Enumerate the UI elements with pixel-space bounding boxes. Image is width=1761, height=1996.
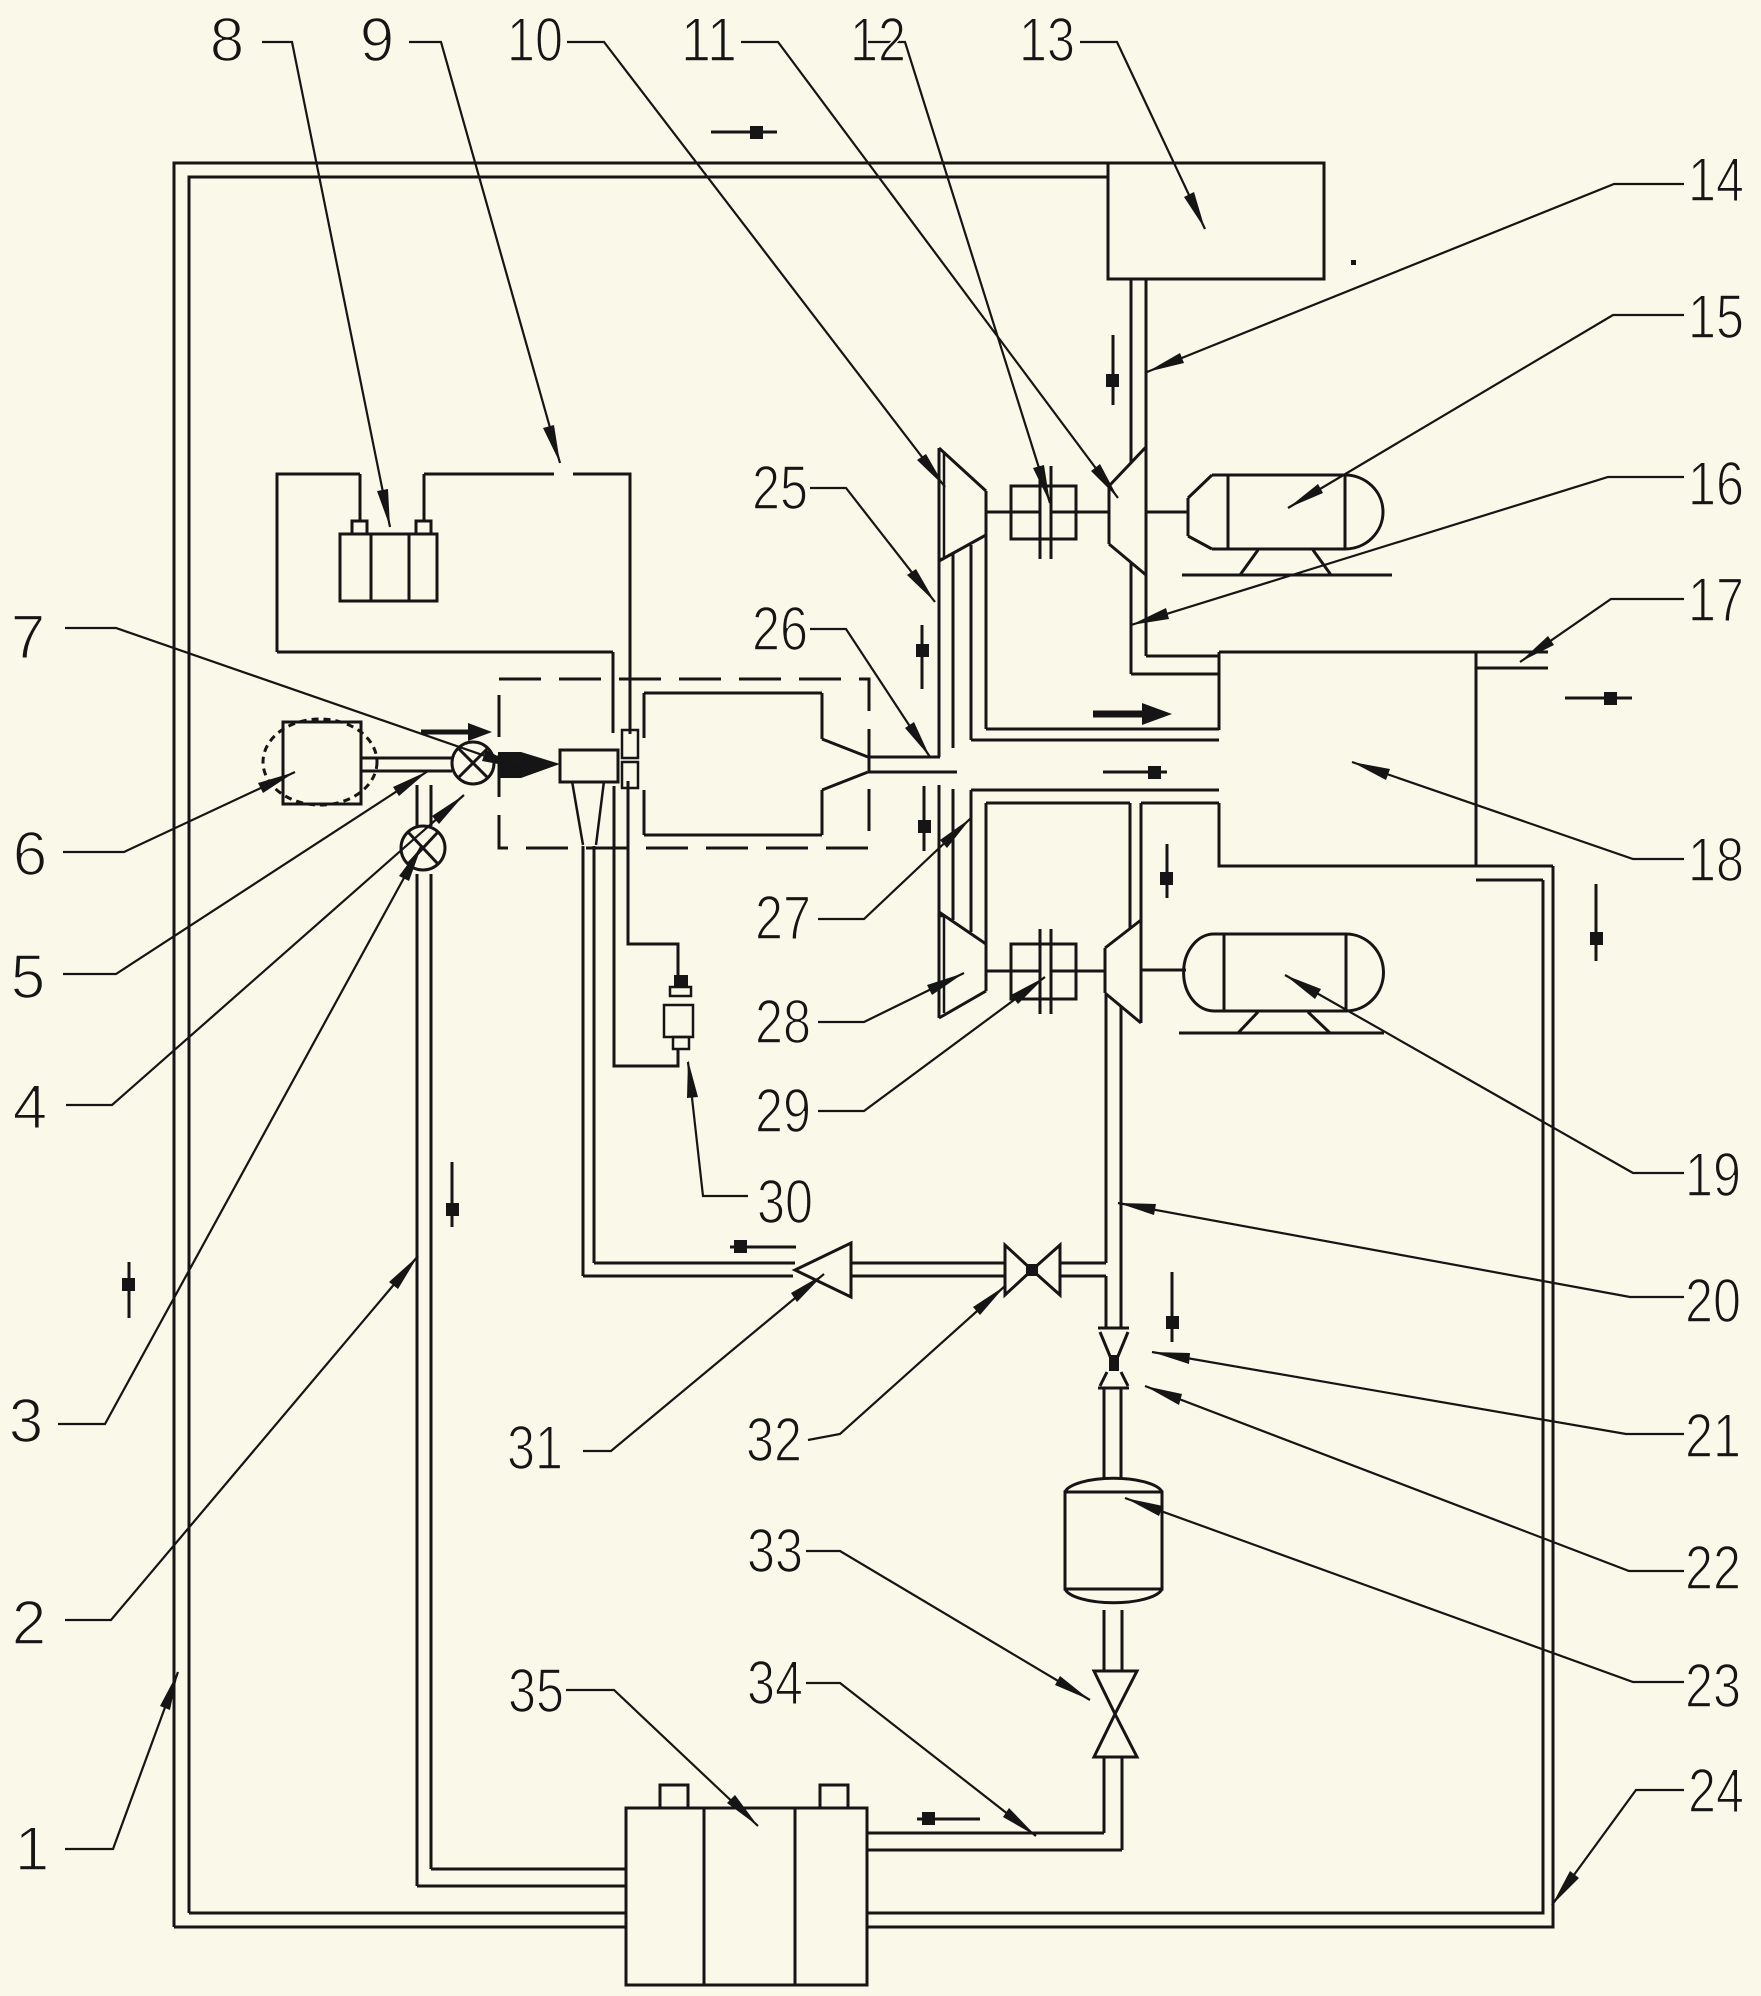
arrowhead leader 26	[905, 722, 930, 757]
leader 28	[818, 973, 964, 1022]
motor 6	[263, 719, 452, 805]
box 9	[277, 474, 630, 734]
svg-text:16: 16	[1688, 450, 1744, 519]
arrowhead leader 20	[1118, 1203, 1156, 1215]
flow arrow down pipe2	[451, 1162, 454, 1227]
tank 15	[1182, 475, 1392, 575]
svg-text:35: 35	[508, 1657, 564, 1726]
arrowhead leader 32	[973, 1286, 1005, 1315]
arrowhead leader 23	[1125, 1498, 1163, 1516]
svg-text:26: 26	[752, 595, 808, 664]
combustion chamber 26	[644, 693, 868, 835]
svg-text:32: 32	[746, 1406, 802, 1475]
pipe down to turbine 20	[1130, 803, 1141, 928]
arrowhead leader 3	[399, 845, 422, 881]
compressor 28 (lower)	[938, 912, 986, 1018]
svg-text:27: 27	[755, 884, 811, 953]
leader 17	[1520, 599, 1684, 662]
leader 34	[806, 1683, 1036, 1836]
component 30 and its pipes	[614, 781, 693, 1066]
leader 20	[1118, 1203, 1684, 1297]
leader 3	[58, 845, 422, 1424]
pipe valve5 to valve3	[417, 785, 431, 826]
arrowhead leader 4	[432, 795, 464, 824]
arrowhead leader 29	[1011, 977, 1045, 1004]
svg-text:24: 24	[1688, 1757, 1744, 1826]
arrowhead leader 10	[917, 454, 945, 487]
svg-text:19: 19	[1685, 1141, 1741, 1210]
flow arrows	[122, 126, 1632, 1825]
svg-text:13: 13	[1019, 6, 1075, 75]
pipe from box18 to right frame	[1476, 866, 1553, 880]
pipe 2	[417, 874, 626, 1886]
svg-text:25: 25	[752, 454, 808, 523]
turbine 11	[1109, 447, 1146, 575]
leader 26	[810, 629, 930, 757]
leader 22	[1145, 1386, 1684, 1571]
leader 27	[818, 818, 971, 919]
leader arrowheads	[160, 192, 1579, 1905]
svg-text:33: 33	[747, 1517, 803, 1586]
flow arrow down to turbine20	[1166, 844, 1169, 898]
svg-text:10: 10	[507, 6, 563, 75]
pipe 16: turbine 11 down, elbow into box 18	[1131, 563, 1219, 674]
svg-text:14: 14	[1688, 146, 1744, 215]
arrowhead leader 5	[393, 771, 428, 796]
flow arrow left into box35	[917, 1818, 980, 1821]
arrowhead leader 34	[1003, 1808, 1036, 1836]
flow arrow up left of stack	[921, 625, 924, 689]
leader 13	[1080, 42, 1205, 229]
svg-text:4: 4	[13, 1073, 47, 1142]
leader 21	[1152, 1352, 1684, 1434]
arrowhead leader 22	[1145, 1386, 1182, 1405]
nozzle bell	[572, 781, 604, 845]
leader 7	[65, 628, 520, 768]
box 18	[1219, 652, 1476, 866]
stray dot	[1351, 260, 1356, 265]
leader 23	[1125, 1498, 1684, 1682]
svg-text:12: 12	[850, 6, 906, 75]
leader 25	[810, 488, 935, 602]
flow arrow above valve 5	[421, 730, 472, 735]
svg-text:8: 8	[210, 6, 244, 75]
arrowhead leader 28	[927, 973, 964, 995]
battery 8	[340, 474, 437, 601]
box 13	[1108, 163, 1324, 279]
corridor stubs from chamber	[868, 757, 957, 772]
svg-text:9: 9	[360, 6, 394, 75]
leader 6	[63, 772, 295, 852]
upper channel to box 18	[971, 729, 1219, 740]
arrowhead leader 31	[791, 1274, 824, 1302]
arrowhead leader 8	[377, 489, 390, 527]
dashed box 25	[499, 679, 869, 848]
svg-text:2: 2	[12, 1589, 46, 1658]
leader 5	[63, 771, 428, 974]
leader 18	[1352, 762, 1684, 859]
leader 30	[688, 1062, 748, 1196]
svg-text:23: 23	[1685, 1652, 1741, 1721]
flow arrow right of box18	[1565, 697, 1632, 700]
leader 29	[818, 977, 1045, 1111]
tank 23	[1065, 1478, 1162, 1602]
flow arrow up left frame	[128, 1262, 131, 1318]
svg-text:34: 34	[747, 1649, 803, 1718]
coupling 12	[986, 466, 1109, 559]
exhaust pipe chamber to valve 31	[583, 846, 594, 1276]
outlet pipe 17	[1476, 652, 1548, 668]
arrowhead leader 15	[1288, 484, 1323, 508]
leader 1	[65, 1672, 178, 1849]
arrowhead leader 2	[389, 1256, 418, 1289]
leader 4	[66, 795, 464, 1105]
svg-text:20: 20	[1685, 1267, 1741, 1336]
leader 8	[262, 42, 390, 527]
arrowhead leader 7	[482, 750, 520, 768]
svg-text:21: 21	[1685, 1402, 1741, 1471]
svg-text:3: 3	[9, 1387, 43, 1456]
svg-text:7: 7	[11, 603, 45, 672]
svg-text:29: 29	[755, 1077, 811, 1146]
frame inner line (pipe 24)	[189, 177, 1543, 1913]
leader 31	[583, 1274, 824, 1451]
tank 19	[1179, 934, 1384, 1033]
svg-text:6: 6	[13, 820, 47, 889]
leader 10	[567, 42, 945, 487]
leader 11	[741, 42, 1118, 498]
flow arrow down pipe21	[1171, 1272, 1174, 1342]
flow arrow big corridor	[1093, 711, 1148, 718]
arrowhead leader 21	[1152, 1352, 1190, 1364]
pipe valve 22 to tank 23	[1104, 1388, 1121, 1478]
arrowhead leader 24	[1552, 1871, 1579, 1905]
box 35	[626, 1785, 867, 1985]
flow arrow down right side	[1595, 884, 1598, 961]
lower channel to box 18	[971, 790, 1219, 803]
flow arrow left above pipe31	[730, 1246, 796, 1249]
valve 31	[795, 1243, 851, 1297]
arrowhead leader 11	[1091, 464, 1118, 498]
valve 5	[452, 742, 494, 784]
svg-text:1: 1	[15, 1815, 49, 1884]
arrowhead leader 33	[1055, 1676, 1090, 1700]
leader 15	[1288, 315, 1684, 508]
arrowhead leader 12	[1033, 465, 1050, 503]
valve 3	[401, 826, 445, 870]
compressor 25 (upper)	[938, 448, 986, 561]
svg-text:15: 15	[1688, 283, 1744, 352]
svg-text:28: 28	[755, 988, 811, 1057]
arrowhead leader 27	[940, 818, 971, 848]
arrowhead leader 19	[1285, 975, 1321, 999]
flow arrow top right	[711, 131, 777, 134]
shaft turbine 11 to tank 15	[1146, 511, 1188, 514]
arrowhead leader 6	[258, 772, 295, 793]
check valve 22	[1098, 1372, 1129, 1388]
svg-text:31: 31	[507, 1414, 563, 1483]
svg-text:11: 11	[681, 6, 737, 75]
flow arrow down pipe14	[1112, 335, 1115, 405]
arrowhead leader 1	[160, 1672, 178, 1710]
leader 12	[868, 42, 1050, 503]
arrowhead leader 18	[1352, 762, 1390, 780]
injector 7 assembly	[498, 730, 638, 788]
pipe 34: valve 33 down, elbow to box 35	[867, 1757, 1122, 1850]
svg-text:30: 30	[757, 1168, 813, 1237]
turbine 20	[1105, 920, 1141, 1023]
frame outer line (pipe 1)	[174, 163, 1553, 1927]
pipe 14 from box 13 down to turbine 11	[1131, 279, 1146, 463]
coupling 29	[986, 929, 1105, 1014]
leader 2	[65, 1256, 418, 1620]
shaft turbine 20 to tank 19	[1141, 969, 1186, 972]
pipe tank 23 to valve 33	[1104, 1610, 1122, 1671]
pipe 21: turbine 20 outlet down	[1106, 995, 1121, 1328]
flow arrow down left of stack	[923, 786, 926, 851]
svg-text:5: 5	[11, 943, 45, 1012]
svg-text:22: 22	[1685, 1534, 1741, 1603]
check valve 21	[1098, 1328, 1129, 1371]
leader 35	[566, 1690, 758, 1826]
svg-text:17: 17	[1688, 566, 1744, 635]
flow arrow corridor small right	[1103, 771, 1167, 774]
valve 32	[1005, 1245, 1060, 1295]
leader 32	[808, 1286, 1005, 1440]
leader 24	[1552, 1790, 1684, 1905]
leader 16	[1131, 477, 1684, 625]
arrowhead leader 16	[1131, 608, 1169, 625]
arrowhead leader 17	[1520, 636, 1554, 662]
svg-text:18: 18	[1688, 826, 1744, 895]
arrowhead leader 13	[1184, 192, 1205, 229]
stack verticals	[938, 448, 941, 1018]
leader 14	[1147, 184, 1684, 372]
arrowhead leader 35	[727, 1795, 758, 1826]
arrowhead leader 14	[1147, 353, 1184, 372]
leader 33	[806, 1551, 1090, 1700]
arrowhead leader 25	[907, 569, 935, 602]
arrowhead leader 30	[687, 1060, 698, 1098]
valve 33	[1094, 1671, 1137, 1757]
arrowhead leader 9	[543, 425, 560, 463]
leader 19	[1285, 975, 1684, 1173]
leader 9	[409, 42, 560, 463]
